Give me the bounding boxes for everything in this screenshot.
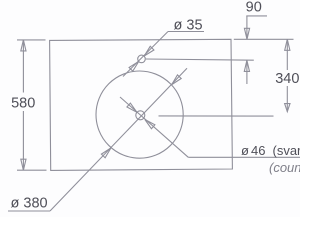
svg-text:340: 340 xyxy=(275,71,299,87)
leader ø35 xyxy=(123,32,168,77)
dimension line 580 xyxy=(22,40,24,170)
dimension line 90 lower xyxy=(246,60,248,84)
extension line top right xyxy=(234,38,294,40)
arrow 90 up xyxy=(244,60,249,71)
arrow 90 down xyxy=(244,28,249,39)
svg-text:(count: (count xyxy=(269,160,300,175)
arrow 580 down xyxy=(21,159,26,170)
hole ø35 xyxy=(138,55,146,63)
arrow ø35 upper xyxy=(142,46,153,57)
arrow ø46 lower xyxy=(143,118,155,129)
leader ø46 diagonal xyxy=(120,97,188,157)
shelf 90 xyxy=(246,15,267,17)
arrow ø35 lower xyxy=(129,60,140,71)
arrow 340 down xyxy=(285,104,290,112)
extension line hole level xyxy=(146,59,254,60)
svg-text:580: 580 xyxy=(11,96,35,112)
svg-text:ø46(svarv: ø46(svarv xyxy=(241,143,300,158)
shelf ø46 xyxy=(188,156,300,158)
arrow ø380 upper xyxy=(170,75,181,87)
svg-text:90: 90 xyxy=(246,0,262,16)
arrow ø380 lower xyxy=(101,146,112,158)
leader ø380 xyxy=(50,68,187,211)
dimension line 340 xyxy=(286,39,288,111)
shelf ø35 xyxy=(168,31,204,33)
svg-text:ø 380: ø 380 xyxy=(11,196,48,212)
extension line 580 bottom xyxy=(17,169,47,171)
bolt circle ø380 xyxy=(96,71,183,158)
arrow ø46 upper xyxy=(127,103,139,114)
extension line center level xyxy=(159,115,274,117)
extension line 580 top xyxy=(17,39,46,41)
plate outline xyxy=(50,39,233,170)
arrow 580 up xyxy=(21,40,26,51)
shelf ø380 xyxy=(8,210,50,212)
center hole ø46 xyxy=(136,111,145,120)
arrow 340 up xyxy=(285,39,290,50)
dimension line 90 upper xyxy=(246,16,248,39)
svg-text:ø 35: ø 35 xyxy=(174,18,203,34)
